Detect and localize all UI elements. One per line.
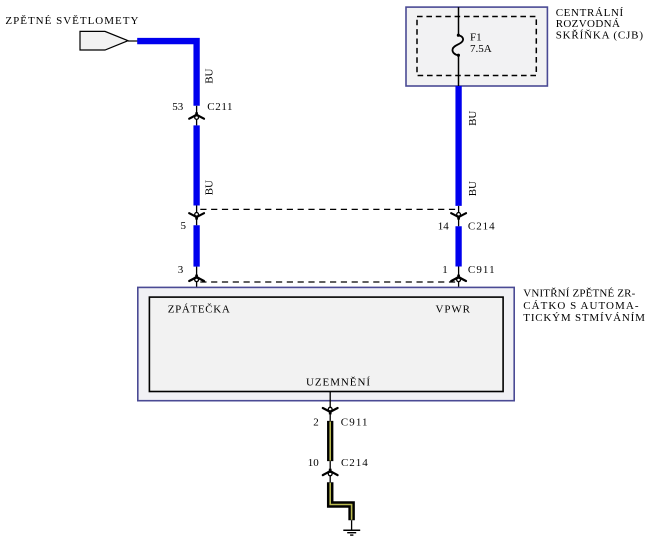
connector C911 pin 3 symbol (189, 275, 204, 282)
svg-text:SKŘÍŇKA (CJB): SKŘÍŇKA (CJB) (556, 29, 644, 41)
wire through connector C211 (196, 106, 198, 126)
svg-text:VNITŘNÍ ZPĚTNÉ ZR-: VNITŘNÍ ZPĚTNÉ ZR- (523, 288, 635, 300)
svg-text:2: 2 (313, 417, 319, 429)
svg-text:5: 5 (181, 220, 187, 232)
wire lead from plug (128, 40, 138, 42)
wire BU from C214 to C911 (193, 225, 199, 266)
svg-text:14: 14 (438, 220, 450, 232)
connector C911 pin 1 symbol (451, 275, 466, 282)
svg-text:3: 3 (178, 264, 184, 276)
wire BK/YE from C911 to C214 (327, 421, 333, 461)
svg-text:BU: BU (204, 180, 216, 195)
svg-text:C214: C214 (468, 220, 495, 232)
dashed connector link C911 (200, 281, 455, 283)
connector plug to reverse lamps (80, 31, 128, 50)
wire through connector C214 pin 14 (458, 206, 460, 226)
connector C911 pin 2 symbol (323, 407, 338, 414)
svg-text:CÁTKO S AUTOMA-: CÁTKO S AUTOMA- (523, 300, 639, 312)
connector C211 symbol (189, 112, 204, 119)
svg-text:UZEMNĚNÍ: UZEMNĚNÍ (306, 376, 370, 388)
wire through connector C911 pin 3 into module (196, 267, 198, 298)
svg-text:ZPÁTEČKA: ZPÁTEČKA (168, 303, 230, 315)
wire through connector C214 pin 10 (329, 461, 331, 482)
wire from CJB top to fuse (458, 7, 460, 35)
ground symbol (343, 529, 360, 531)
svg-text:CENTRÁLNÍ: CENTRÁLNÍ (556, 7, 624, 19)
connector C214 pin 14 symbol (451, 213, 466, 220)
wire BU from C214 to C911 (455, 226, 461, 266)
svg-text:C211: C211 (207, 101, 232, 113)
CJB internal dashed box (417, 17, 536, 76)
svg-text:BU: BU (467, 111, 479, 126)
fuse F1 (457, 34, 460, 37)
ground wire from module through C911 pin 2 (329, 392, 331, 421)
svg-text:1: 1 (442, 264, 448, 276)
wire through connector C911 pin 1 into module (458, 267, 460, 298)
svg-text:TICKÝM STMÍVÁNÍM: TICKÝM STMÍVÁNÍM (523, 312, 645, 324)
svg-text:BU: BU (467, 181, 479, 196)
wire from fuse to CJB bottom (458, 55, 460, 86)
CJB box (406, 7, 547, 86)
svg-text:C214: C214 (341, 457, 368, 469)
svg-text:BU: BU (204, 68, 216, 83)
svg-text:10: 10 (308, 457, 320, 469)
svg-text:C911: C911 (341, 417, 368, 429)
svg-text:VPWR: VPWR (436, 303, 471, 315)
dashed connector link C214 (200, 208, 455, 210)
connector C214 pin 5 symbol (189, 213, 204, 220)
wire BK/YE from C214 to ground (330, 482, 351, 520)
svg-text:C911: C911 (468, 264, 495, 276)
mirror module inner box (149, 297, 503, 391)
svg-text:7.5A: 7.5A (470, 43, 492, 55)
svg-text:53: 53 (172, 101, 184, 113)
wire BU from CJB to C214 (455, 86, 461, 206)
wire BU from C211 to C214 (193, 125, 199, 205)
svg-text:ROZVODNÁ: ROZVODNÁ (556, 18, 620, 30)
svg-text:ZPĚTNÉ SVĚTLOMETY: ZPĚTNÉ SVĚTLOMETY (5, 15, 138, 27)
svg-text:F1: F1 (470, 31, 482, 43)
wire BU from plug to C211 (137, 41, 196, 106)
mirror module outer box (138, 287, 514, 400)
wire through connector C214 pin 5 (196, 206, 198, 226)
connector C214 pin 10 symbol (323, 469, 338, 476)
ground lead (351, 520, 353, 529)
